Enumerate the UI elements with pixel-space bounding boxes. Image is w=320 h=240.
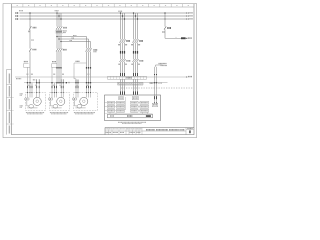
contactor KM2 main contacts [86,48,88,51]
wire numbers group2 [131,44,133,45]
circuit breaker QF3 [120,39,122,42]
label under cabinet [118,122,119,123]
wire stub above bus branch2 [56,11,58,13]
wire jumper phase C [61,41,91,43]
pump unit box 2 boundary [50,93,70,111]
spare terminal right of box2 group [66,82,67,83]
cable marking above box 2 [51,86,54,88]
bus L1 [20,12,187,14]
wire branch1 vertical [29,13,31,27]
pump P1 [29,105,34,109]
wire number below QF1 [28,31,30,33]
contactor KM1 main contacts [56,48,58,51]
node group2 bus taps [133,12,134,13]
terminal strip XT1 (upper) [108,76,147,79]
thermal relay KK1 heater block [55,30,63,33]
title block grid [105,127,194,129]
motor M1 [33,97,41,105]
control pair stubs above row box2 [60,79,62,82]
wire control group 1 verticals [120,13,122,40]
contactor KM4 contacts [133,59,135,62]
node branch2 bus taps [56,12,57,13]
thermal overload bracket KK3 [76,61,77,62]
label under box 1 [26,111,27,114]
wire numbers group1 [118,44,120,45]
cable marking above box 1 [26,86,29,88]
io module right side [152,103,158,106]
label QF1 [33,27,34,29]
node jumper taps branch2 [56,36,57,37]
control pair stubs above row box1 [36,79,38,82]
pump P3 [77,105,82,109]
control cabinet box boundary [105,95,161,121]
cable wires into box 1 [27,83,29,93]
contactor KM3 contacts [120,59,122,62]
label QS1 [32,49,33,51]
inner frame border [12,4,195,135]
panel boundary line [15,76,187,78]
cable marking on branch5 run [181,37,186,39]
sheet cell Лист [187,128,188,129]
top reference zone strip [22,4,24,7]
terminal blocks on row [27,82,28,83]
motor M2 [57,97,65,105]
label QF3 [126,40,127,42]
switch QS1 [29,48,31,51]
document title text [146,129,147,131]
left margin stamp column [6,70,8,135]
label KM3 [126,60,127,62]
sensor plug in box 3 [72,98,74,100]
control pair stubs above row box3 [75,80,77,83]
label KM4 [139,60,140,62]
feed source corner [156,65,163,67]
bus L2 [20,15,187,17]
wire branch5 horizontal run [165,37,187,39]
wire branch2 three-phase verticals [56,13,58,27]
label KK1 [63,30,64,31]
bus right end markers [186,12,187,13]
circuit breaker QF2 three poles [56,26,58,29]
branch5 end marker [186,38,187,39]
sensor plug in box 2 [48,98,50,100]
title block small texts [106,127,107,130]
node branch5 bus taps [164,12,165,13]
label KIP left of feed pair [150,82,151,84]
wire branch3 three-phase verticals [86,37,88,49]
wire number below QF5 [162,31,163,33]
terminal numbers below row near box 2 [53,85,55,86]
motor M3 [80,97,88,105]
label KM2 [93,49,94,51]
terminal strip XT2 (numbered cells) [118,82,144,84]
cable marking group1 below terminals [119,91,122,94]
cable wires into box 2 [51,83,53,93]
pump unit box 3 boundary [74,93,98,111]
wire jumper phase A [57,36,87,38]
cable marking group1 above strip [119,73,122,76]
label near terminal row left [33,79,34,80]
cabinet dashed boundary [121,87,194,89]
wire numbers group1 lower [118,64,120,65]
label under box 2 [50,111,51,114]
wire numbers group2 lower [131,64,133,65]
wire numbers on jumpers [73,35,74,36]
wire control group 2 verticals [133,13,135,40]
pump P2 [53,105,58,109]
circuit breaker QF1 [29,26,31,29]
wires inside cabinet [125,97,127,110]
terminal row line [24,82,168,84]
circuit breaker QF4 [133,39,135,42]
wire branch5 vertical [164,13,166,27]
drawing sheet outer border [3,4,197,138]
label QF5 [167,27,168,29]
node branch1 bus tap [29,12,30,13]
label KM1 [63,49,64,51]
bus labels left [15,12,16,14]
terminal numbers below row near box 1 [28,85,30,86]
thermal overload bracket KK2 [52,61,53,62]
cable wires into box 3 [75,83,77,93]
node group1 bus taps [120,12,121,13]
cable marking above box 3 [75,86,78,88]
thermal sensor bracket KK1 [24,61,25,62]
bottom terminal strip in cabinet [108,114,153,118]
feed pair wires into cabinet [154,67,156,103]
terminal numbers below row near box 3 [77,85,79,86]
bus L3 [20,18,187,20]
label QF4 [139,40,140,42]
sensor plug in box 1 [25,98,27,100]
fuse block row group2 [133,51,134,54]
label under box 3 [74,111,75,114]
relay modules right cluster with entry module [132,97,138,100]
wire stub above bus group1 [118,11,119,12]
cable marking group2 below terminals [132,91,135,94]
relay modules left cluster with entry module [119,97,124,100]
cable marking feed pair [153,96,156,99]
label QF2 [63,27,64,29]
cable marking group2 above strip [132,73,135,76]
wire jumper phase B [59,38,89,40]
circuit breaker QF5 [164,26,166,29]
fuse block row group1 [120,51,121,54]
pump unit box 1 boundary [26,93,46,111]
